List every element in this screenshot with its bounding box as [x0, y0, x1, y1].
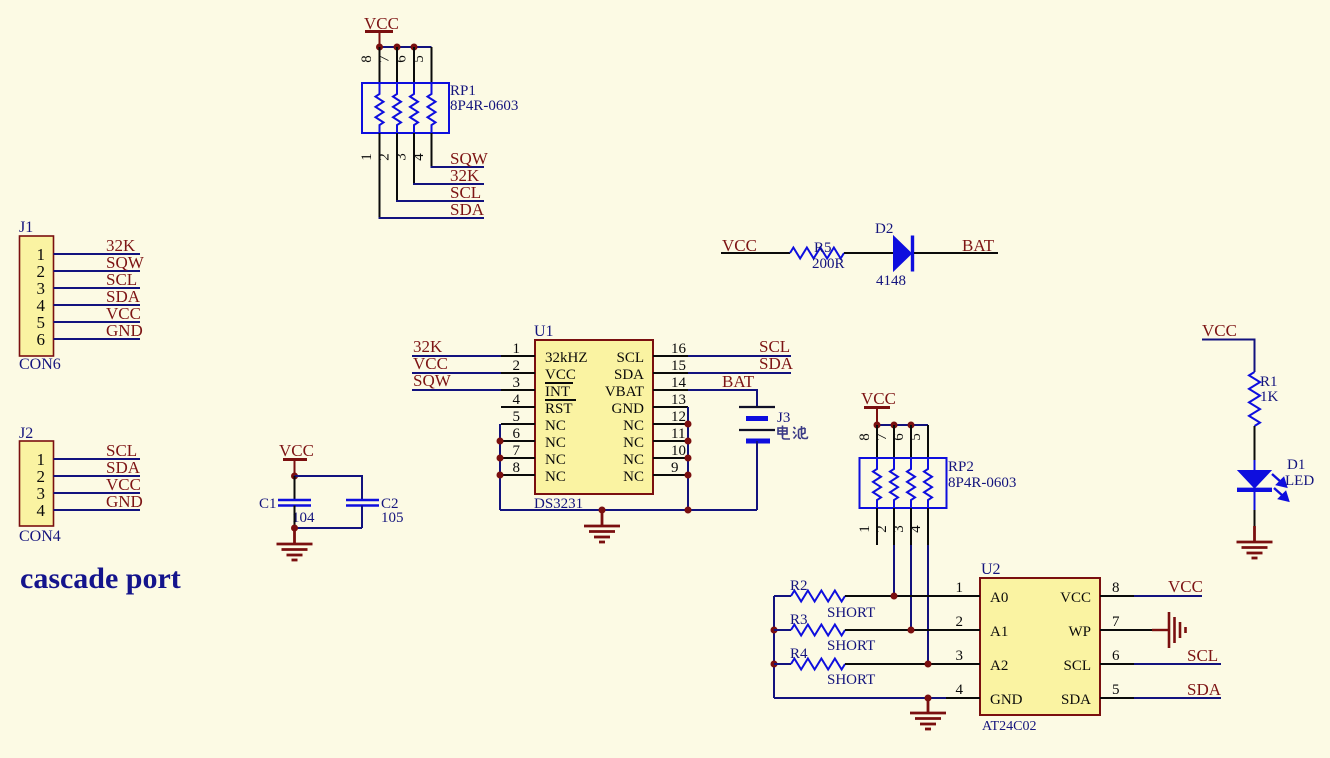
wire J2 pin 1 net SCL [54, 458, 141, 460]
resistor pack RP1 body [362, 83, 449, 133]
svg-text:SCL: SCL [616, 350, 644, 366]
svg-text:BAT: BAT [962, 236, 995, 255]
svg-text:5: 5 [1112, 682, 1120, 698]
svg-text:2: 2 [513, 358, 521, 374]
svg-text:RST: RST [545, 401, 573, 417]
svg-text:32kHZ: 32kHZ [545, 350, 588, 366]
svg-text:15: 15 [671, 358, 686, 374]
wire J1 pin 1 net 32K [54, 253, 141, 255]
battery J3 plate 3 [739, 429, 775, 431]
svg-text:R5: R5 [814, 240, 832, 256]
svg-text:A0: A0 [990, 590, 1008, 606]
pin 1 stub (U2 left) [946, 595, 980, 597]
wire C1 top drop [294, 476, 296, 500]
ground (D1) [1237, 526, 1273, 558]
svg-text:3: 3 [956, 648, 964, 664]
svg-text:6: 6 [37, 330, 46, 349]
svg-text:U2: U2 [981, 561, 1001, 578]
svg-text:R4: R4 [790, 646, 808, 662]
wire C2 bottom to C1 bottom [295, 527, 363, 529]
svg-text:GND: GND [106, 492, 143, 511]
capacitor C2 [346, 500, 379, 506]
junction RP1 pin7 [394, 44, 401, 51]
IC U1 body [535, 340, 653, 494]
pin 9 stub (U1 right) [653, 474, 688, 476]
svg-text:A2: A2 [990, 658, 1008, 674]
wire RP1 pin 7 [396, 47, 398, 83]
wire RP2 pin 8 [876, 425, 878, 458]
wire U2 WP to ground [1134, 629, 1152, 631]
battery J3 plate 4 [746, 439, 770, 444]
IC U2 body [980, 578, 1100, 715]
svg-text:cascade port: cascade port [20, 562, 181, 595]
junction ground tap [599, 507, 606, 514]
svg-text:200R: 200R [812, 256, 845, 272]
svg-text:13: 13 [671, 392, 686, 408]
diode D2 [894, 236, 912, 271]
wire J1 pin 6 net GND [54, 338, 141, 340]
wire left bus to R3 [774, 629, 791, 631]
pin 2 stub (U2 left) [946, 629, 980, 631]
svg-text:5: 5 [908, 433, 924, 441]
wire U1 right NC bus [687, 407, 689, 510]
svg-text:NC: NC [545, 435, 566, 451]
svg-text:4: 4 [908, 525, 924, 533]
junction RP2 pin2 / A0 [891, 593, 898, 600]
svg-text:NC: NC [623, 452, 644, 468]
pin 12 stub (U1 right) [653, 423, 688, 425]
svg-text:4148: 4148 [876, 273, 906, 289]
wire RP1 pin 3 [413, 133, 415, 184]
pin 10 stub (U1 right) [653, 457, 688, 459]
ground (C1/C2) [277, 528, 313, 560]
svg-text:6: 6 [891, 433, 907, 441]
svg-text:1K: 1K [1260, 389, 1279, 405]
resistor RP2 element 8-1 [873, 458, 881, 508]
svg-text:C1: C1 [259, 496, 277, 512]
battery J3 plate 1 [739, 406, 775, 408]
junction RP2 pin3 / A1 [908, 627, 915, 634]
svg-text:4: 4 [956, 682, 964, 698]
wire net SDA from U2 pin5 [1134, 697, 1221, 699]
junction U1 pin12 [685, 421, 692, 428]
wire net SQW from RP1 pin4 [431, 166, 485, 168]
svg-text:SHORT: SHORT [827, 605, 875, 621]
pin 3 stub (U2 left) [946, 663, 980, 665]
svg-text:3: 3 [513, 375, 521, 391]
junction VCC / C1 top [291, 473, 298, 480]
svg-text:7: 7 [1112, 614, 1120, 630]
resistor R5 [790, 248, 844, 259]
LED D1 emission arrows [1272, 474, 1288, 501]
wire C1 top to C2 top [295, 475, 363, 477]
svg-text:14: 14 [671, 375, 687, 391]
wire RP2 pin 5 [927, 425, 929, 458]
svg-text:2: 2 [874, 525, 890, 533]
resistor R4 [791, 659, 845, 670]
svg-text:SDA: SDA [1061, 692, 1091, 708]
svg-text:NC: NC [623, 435, 644, 451]
svg-text:SHORT: SHORT [827, 638, 875, 654]
wire RP1 pin 6 [413, 47, 415, 83]
svg-text:SDA: SDA [1187, 680, 1222, 699]
svg-text:RP1: RP1 [450, 83, 476, 99]
junction RP1 pin6 [411, 44, 418, 51]
svg-text:8: 8 [359, 55, 375, 63]
wire ground row to U2 pin4 [774, 697, 946, 699]
resistor RP1 element 7-2 [393, 83, 401, 133]
pin 6 stub (U2 right) [1100, 663, 1134, 665]
junction U1 pin10 [685, 455, 692, 462]
svg-text:105: 105 [381, 510, 404, 526]
pin 5 stub (U2 right) [1100, 697, 1134, 699]
wire RP2 pin 7 [893, 425, 895, 458]
pin 8 stub (U2 right) [1100, 595, 1134, 597]
wire J2 pin 2 net SDA [54, 475, 141, 477]
pin 7 stub (U2 right) [1100, 629, 1134, 631]
svg-text:11: 11 [671, 426, 685, 442]
resistor RP1 element 6-3 [410, 83, 418, 133]
svg-text:RP2: RP2 [948, 459, 974, 475]
wire net SCL from U2 pin6 [1134, 663, 1221, 665]
svg-text:D2: D2 [875, 221, 893, 237]
wire R4 to U2 pin3 [845, 663, 946, 665]
wire VCC to R1 [1202, 340, 1255, 373]
wire address strap left bus [773, 596, 775, 698]
junction C1 bottom / ground [291, 525, 298, 532]
svg-text:SQW: SQW [413, 371, 452, 390]
wire J1 pin 5 net VCC [54, 321, 141, 323]
battery J3 plate 2 [746, 416, 768, 421]
svg-text:10: 10 [671, 443, 686, 459]
wire net SDA from RP1 pin1 [379, 217, 485, 219]
wire left bus to R2 [774, 595, 791, 597]
pin 4 stub (U1 left) [501, 406, 535, 408]
pin 7 stub (U1 left) [501, 457, 535, 459]
svg-text:VBAT: VBAT [605, 384, 644, 400]
wire RP2 pin 6 [910, 425, 912, 458]
svg-text:7: 7 [377, 55, 393, 63]
junction RP1 pin8 [376, 44, 383, 51]
wire net SCL from RP1 pin2 [396, 200, 484, 202]
ground (WP) sideways [1169, 612, 1186, 648]
junction RP2 pin8 [874, 422, 881, 429]
svg-text:GND: GND [106, 321, 143, 340]
wire net 32K to U1 pin1 [412, 355, 501, 357]
wire net BAT from U1 pin14 [688, 390, 757, 407]
svg-text:7: 7 [874, 433, 890, 441]
wire C2 top drop [361, 475, 363, 500]
resistor RP2 element 6-3 [907, 458, 915, 508]
pin 2 stub (U1 left) [501, 372, 535, 374]
pin 11 stub (U1 right) [653, 440, 688, 442]
wire R5 to D2 [844, 252, 894, 254]
junction R4 left [771, 661, 778, 668]
resistor RP2 element 7-2 [890, 458, 898, 508]
svg-text:NC: NC [623, 469, 644, 485]
svg-text:6: 6 [1112, 648, 1120, 664]
pin 13 stub (U1 right) [653, 406, 688, 408]
svg-text:SCL: SCL [1063, 658, 1091, 674]
wire RP2 pin 1 stub [876, 508, 878, 545]
wire J2 pin 4 net GND [54, 509, 141, 511]
svg-text:NC: NC [545, 452, 566, 468]
svg-text:CON4: CON4 [19, 528, 61, 545]
svg-text:LED: LED [1285, 473, 1314, 489]
svg-text:VCC: VCC [1202, 321, 1237, 340]
svg-text:4: 4 [37, 501, 46, 520]
svg-text:D1: D1 [1287, 457, 1305, 473]
wire R3 to U2 pin2 [845, 629, 946, 631]
svg-text:R2: R2 [790, 578, 808, 594]
wire net VCC from U2 pin8 [1134, 595, 1202, 597]
wire D2 to BAT [914, 252, 998, 254]
resistor RP1 element 8-1 [376, 83, 384, 133]
junction R3 left [771, 627, 778, 634]
value battery chinese [778, 426, 808, 440]
svg-text:1: 1 [513, 341, 521, 357]
svg-text:2: 2 [956, 614, 964, 630]
pin 3 stub (U1 left) [501, 389, 535, 391]
svg-text:J3: J3 [777, 410, 790, 426]
svg-text:8: 8 [513, 460, 521, 476]
svg-text:BAT: BAT [722, 372, 755, 391]
connector J1 body [20, 236, 54, 356]
svg-text:R3: R3 [790, 612, 808, 628]
svg-text:GND: GND [990, 692, 1023, 708]
junction U1 pin11 [685, 438, 692, 445]
ground (U1) [584, 510, 620, 542]
svg-text:GND: GND [612, 401, 645, 417]
svg-text:5: 5 [411, 55, 427, 63]
svg-text:3: 3 [394, 153, 410, 161]
wire net 32K from RP1 pin3 [413, 183, 484, 185]
wire RP1 pin 1 [379, 133, 381, 218]
resistor RP2 element 5-4 [924, 458, 932, 508]
svg-text:5: 5 [513, 409, 521, 425]
wire net SCL from U1 pin16 [688, 355, 791, 357]
connector J2 body [20, 441, 54, 526]
svg-text:VCC: VCC [1168, 577, 1203, 596]
svg-text:SHORT: SHORT [827, 672, 875, 688]
wire net VCC to U1 pin2 [412, 372, 501, 374]
wire left bus to R4 [774, 663, 791, 665]
junction RP2 pin4 / A2 [925, 661, 932, 668]
svg-text:SDA: SDA [614, 367, 644, 383]
junction U1 pin6 [497, 438, 504, 445]
wire VCC rail to RP1 pins 8-5 [380, 46, 432, 48]
svg-text:NC: NC [545, 418, 566, 434]
ground (U2) [910, 698, 946, 729]
resistor RP1 element 5-4 [428, 83, 436, 133]
wire RP2 pin 3 [910, 508, 912, 545]
wire RP1 pin 2 [396, 133, 398, 201]
svg-text:VCC: VCC [1060, 590, 1091, 606]
pin 8 stub (U1 left) [501, 474, 535, 476]
wire J2 pin 3 net VCC [54, 492, 141, 494]
svg-text:VCC: VCC [545, 367, 576, 383]
svg-text:VCC: VCC [861, 389, 896, 408]
svg-text:2: 2 [377, 153, 393, 161]
svg-text:7: 7 [513, 443, 521, 459]
wire net SQW to U1 pin3 [412, 389, 501, 391]
svg-text:J2: J2 [19, 425, 33, 442]
svg-text:1: 1 [359, 153, 375, 161]
wire RP1 pin 5 [431, 47, 433, 83]
capacitor C1 [278, 500, 311, 506]
wire J1 pin 2 net SQW [54, 270, 141, 272]
svg-text:9: 9 [671, 460, 679, 476]
wire RP1 pin 4 [431, 133, 433, 167]
wire RP2 pin 2 [893, 508, 895, 545]
svg-text:SDA: SDA [759, 354, 794, 373]
svg-text:INT: INT [545, 384, 570, 400]
svg-text:VCC: VCC [279, 441, 314, 460]
svg-text:4: 4 [513, 392, 521, 408]
pin 15 stub (U1 right) [653, 372, 688, 374]
pin 5 stub (U1 left) [501, 423, 535, 425]
wire C2 bottom drop [361, 506, 363, 529]
wire net SDA from U1 pin15 [688, 372, 791, 374]
svg-text:NC: NC [623, 418, 644, 434]
svg-text:1: 1 [956, 580, 964, 596]
svg-text:J1: J1 [19, 219, 33, 236]
svg-text:WP: WP [1069, 624, 1092, 640]
svg-text:4: 4 [411, 153, 427, 161]
wire VCC rail to RP2 pins 8-5 [877, 424, 928, 426]
svg-text:A1: A1 [990, 624, 1008, 640]
svg-text:8P4R-0603: 8P4R-0603 [450, 98, 518, 114]
svg-text:6: 6 [513, 426, 521, 442]
svg-text:AT24C02: AT24C02 [982, 719, 1036, 734]
wire VCC to R5 [721, 252, 790, 254]
wire ground bus under U1 [500, 509, 757, 511]
svg-text:8: 8 [857, 433, 873, 441]
junction RP2 pin7 [891, 422, 898, 429]
wire D1 cathode down [1254, 492, 1256, 510]
svg-text:NC: NC [545, 469, 566, 485]
wire U1 left NC bus [499, 424, 501, 510]
resistor pack RP2 body [860, 458, 947, 508]
svg-text:3: 3 [891, 525, 907, 533]
svg-text:12: 12 [671, 409, 686, 425]
wire J1 pin 3 net SCL [54, 287, 141, 289]
svg-text:R1: R1 [1260, 374, 1278, 390]
svg-text:U1: U1 [534, 323, 554, 340]
pin 6 stub (U1 left) [501, 440, 535, 442]
resistor R3 [791, 625, 845, 636]
wire RP1 pin 8 [379, 47, 381, 83]
wire J1 pin 4 net SDA [54, 304, 141, 306]
junction U1 pin8 [497, 472, 504, 479]
svg-text:SCL: SCL [1187, 646, 1218, 665]
svg-text:1: 1 [857, 525, 873, 533]
svg-text:8: 8 [1112, 580, 1120, 596]
wire R1 to D1 [1254, 426, 1256, 460]
junction U1 pin7 [497, 455, 504, 462]
pin 4 stub (U2 left) [946, 697, 980, 699]
resistor R1 [1249, 372, 1260, 426]
wire RP2 pin 4 [927, 508, 929, 545]
wire R2 to U2 pin1 [845, 595, 946, 597]
pin 14 stub (U1 right) [653, 389, 688, 391]
svg-text:SDA: SDA [450, 200, 485, 219]
junction U2 GND / ground [925, 695, 932, 702]
junction right bus to ground [685, 507, 692, 514]
svg-text:16: 16 [671, 341, 687, 357]
svg-text:6: 6 [394, 55, 410, 63]
pin 1 stub (U1 left) [501, 355, 535, 357]
wire C1 bottom drop [294, 506, 296, 529]
svg-text:8P4R-0603: 8P4R-0603 [948, 475, 1016, 491]
junction U1 pin9 [685, 472, 692, 479]
pin 16 stub (U1 right) [653, 355, 688, 357]
LED D1 [1238, 471, 1271, 489]
svg-text:CON6: CON6 [19, 356, 61, 373]
junction RP2 pin6 [908, 422, 915, 429]
resistor R2 [791, 591, 845, 602]
battery J3 bottom lead [756, 441, 758, 510]
